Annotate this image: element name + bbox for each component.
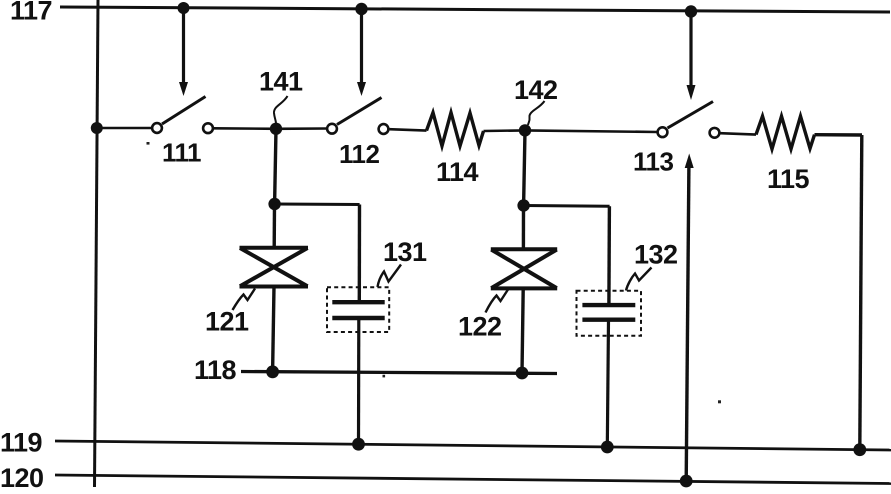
junction dot on 117 at x=184 — [178, 2, 190, 14]
junction dot (274.6,204) — [268, 198, 280, 210]
arrow down from 117 to switch 113 — [687, 12, 696, 101]
leader line for 121 — [233, 289, 256, 311]
leader line for 132 — [626, 268, 652, 291]
capacitor 132 dashed box — [577, 291, 642, 336]
scan specks (decorative) — [147, 142, 722, 403]
junction dot (523.6,205.5) — [517, 199, 529, 211]
wire: element 121 to node 118 line — [273, 287, 274, 372]
svg-text:118: 118 — [194, 355, 237, 385]
svg-text:113: 113 — [633, 147, 673, 177]
wire: branch to capacitor 131 horizontal — [275, 203, 360, 207]
wire: node 142 to switch 113 — [525, 130, 657, 132]
wire: bus line 120 — [55, 475, 891, 484]
wire: node line 118 — [241, 372, 557, 374]
capacitor 131 bottom plate — [332, 316, 384, 320]
wire: bus line 119 — [55, 441, 891, 450]
wire: switch 111 to node 141 — [214, 127, 277, 130]
arrow down from 117 to switch 111 — [179, 8, 188, 96]
junction dot 121 on line 118 — [266, 365, 279, 378]
wire: resistor 115 to right corner — [815, 133, 863, 137]
wire: right branch vertical down to line 119 — [860, 135, 862, 450]
junction dot cap 132 on line 119 — [601, 441, 614, 454]
wire: capacitor 131 down to line 119 — [357, 318, 360, 444]
wire: top bus line 117 — [60, 7, 890, 12]
junction dot on 117 at x=361.5 — [355, 3, 367, 15]
switch 111 — [152, 97, 213, 134]
svg-text:117: 117 — [10, 0, 52, 26]
wire: branch down into capacitor 131 — [358, 205, 362, 303]
svg-text:132: 132 — [634, 240, 678, 270]
svg-text:121: 121 — [205, 307, 249, 337]
switch 113 — [658, 102, 720, 138]
svg-text:131: 131 — [383, 237, 427, 267]
element 121 (hourglass) — [240, 248, 309, 287]
resistor 115 — [756, 116, 815, 149]
wire: node 142 drop to node at y=205.5 — [524, 130, 525, 205]
node 141 junction dot — [270, 123, 282, 135]
wire: node 141 drop to node at y=204 — [275, 129, 276, 204]
arrow up from line 120 — [685, 154, 694, 482]
capacitor 132 top plate — [582, 303, 635, 307]
switch 112 — [327, 98, 388, 134]
svg-text:119: 119 — [0, 428, 43, 458]
leader line for 131 — [378, 265, 402, 288]
svg-text:122: 122 — [458, 312, 502, 342]
svg-text:115: 115 — [767, 164, 810, 194]
svg-text:112: 112 — [339, 139, 379, 169]
wire: node down to element 122 — [522, 206, 525, 250]
wire: element 122 to node 118 line — [522, 288, 523, 373]
svg-text:142: 142 — [514, 75, 558, 105]
wire: node 141 to switch 112 — [276, 127, 327, 130]
svg-text:114: 114 — [436, 157, 479, 187]
wire: switch 112 to resistor 114 — [389, 129, 427, 130]
junction dot cap 131 on line 119 — [352, 438, 365, 451]
element 122 (hourglass) — [491, 249, 557, 288]
junction dot 122 on line 118 — [516, 367, 529, 380]
wire: bus to switch 111 — [97, 127, 152, 130]
resistor 114 — [427, 113, 484, 147]
capacitor 132 bottom plate — [582, 318, 635, 322]
wire: switch 113 to resistor 115 — [720, 133, 756, 134]
junction dot bus-to-row at (97,128) — [91, 122, 103, 134]
wire: node down to element 121 — [273, 204, 277, 248]
svg-text:141: 141 — [259, 67, 303, 97]
capacitor 131 top plate — [332, 300, 384, 304]
node 142 junction dot — [519, 124, 531, 136]
arrow down from 117 to switch 112 — [357, 9, 366, 96]
svg-text:120: 120 — [0, 463, 44, 489]
wire: capacitor 132 down to line 119 — [607, 320, 608, 447]
capacitor 131 dashed box — [327, 287, 389, 332]
svg-text:111: 111 — [162, 138, 201, 168]
wire: left vertical bus — [95, 0, 99, 487]
junction dot up-arrow on line 120 — [680, 475, 693, 488]
leader line for 122 — [486, 290, 509, 313]
wire: branch to capacitor 132 horizontal — [524, 204, 610, 208]
junction dot on 117 at x=691 — [685, 5, 697, 17]
wire: resistor 114 to node 142 — [484, 129, 526, 132]
junction dot right branch on line 119 — [853, 443, 866, 456]
leader line for 141 — [274, 96, 288, 123]
leader line for 142 — [528, 101, 545, 125]
wire: branch down into capacitor 132 — [607, 206, 611, 305]
